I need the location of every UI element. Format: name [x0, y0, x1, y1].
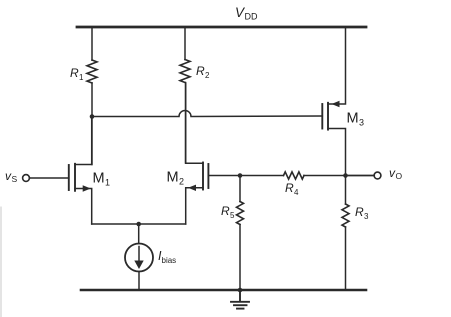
- feedback / output line: M2 gate node to R4 to output: [240, 175, 284, 177]
- wire output node to R3: [345, 176, 347, 205]
- input terminal vs: [23, 175, 30, 182]
- scan edge artifact: [0, 207, 2, 317]
- ground: [231, 290, 249, 309]
- VDD rail: [77, 26, 366, 29]
- current source Ibias: [125, 224, 153, 290]
- svg-text:R: R: [221, 204, 230, 218]
- svg-text:5: 5: [230, 211, 235, 220]
- wire VDD to R1: [91, 27, 93, 60]
- ground rail: [81, 289, 366, 292]
- node ground junction: [238, 288, 243, 293]
- wire M1 source to M2 source: [92, 223, 186, 225]
- svg-text:3: 3: [359, 118, 364, 128]
- output terminal vo: [346, 172, 381, 179]
- svg-text:4: 4: [294, 188, 299, 197]
- resistor R3: [342, 204, 349, 227]
- svg-text:1: 1: [105, 178, 110, 188]
- wire R1 to M1 drain: [91, 83, 93, 165]
- wire R5 to ground rail: [239, 225, 241, 291]
- resistor R4: [284, 172, 305, 179]
- resistor R1: [87, 60, 97, 83]
- svg-text:R: R: [285, 181, 294, 195]
- transistor M2: [186, 83, 240, 224]
- transistor M3: [322, 27, 345, 176]
- wire node to R5: [239, 176, 241, 202]
- wire VDD to R2: [184, 27, 186, 60]
- node R5 junction: [238, 173, 243, 178]
- svg-text:3: 3: [364, 212, 369, 221]
- svg-text:2: 2: [205, 71, 210, 80]
- svg-text:1: 1: [79, 73, 84, 82]
- wire R3 to ground rail: [345, 227, 347, 290]
- svg-text:R: R: [196, 64, 205, 78]
- svg-text:R: R: [355, 205, 364, 219]
- node output junction: [343, 173, 348, 178]
- svg-text:DD: DD: [245, 12, 258, 22]
- wire R2 to M2 drain: [185, 83, 187, 164]
- transistor M1: [30, 117, 92, 224]
- resistor R5: [237, 202, 244, 225]
- wire R4 to output node: [304, 175, 374, 177]
- svg-text:R: R: [70, 66, 79, 80]
- svg-text:M: M: [167, 170, 179, 186]
- svg-text:O: O: [396, 171, 403, 181]
- svg-text:M: M: [347, 111, 359, 127]
- svg-text:2: 2: [179, 177, 184, 187]
- node M1 drain junction: [90, 114, 95, 119]
- node tail junction: [136, 222, 141, 227]
- resistor R2: [180, 60, 190, 83]
- svg-text:M: M: [93, 171, 105, 187]
- wire M1 drain to M3 gate with hop over R2 wire: [92, 111, 322, 117]
- svg-text:S: S: [12, 174, 18, 184]
- svg-text:bias: bias: [162, 256, 177, 265]
